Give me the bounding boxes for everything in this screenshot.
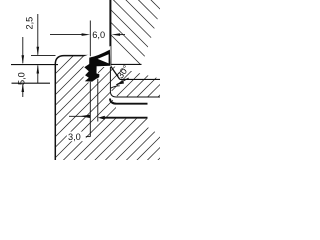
hatching upper block (backslash direction): [0, 0, 230, 154]
svg-text:6,0: 6,0: [92, 30, 105, 40]
white underlay below seal: [84, 46, 111, 83]
lower-right block top edge (thick, rounded corner): [110, 99, 148, 104]
extension line L1 (left of block, for 2.5 dim): [31, 55, 56, 57]
upper block bottom edge: [110, 63, 142, 65]
step top edge right of chamfer: [120, 78, 160, 80]
extension line L2: [11, 64, 58, 66]
wall face (upper block left edge, thick): [109, 0, 111, 66]
svg-text:3,0: 3,0: [68, 132, 81, 142]
wall face extension + inner corner line (thin L): [110, 66, 160, 97]
3,0 dim right tail (thick): [105, 117, 148, 119]
lower-left block: left edge + rounded corner + top edge: [55, 56, 89, 160]
dim 6,0 : horizontal at y=34.6: [50, 21, 125, 57]
block top edge right of seal groove: [98, 65, 110, 67]
svg-text:2,5: 2,5: [25, 17, 35, 30]
hatching lower block (slash direction): [0, 0, 320, 170]
dim 5,0 : vertical line at x=22.8: [22, 37, 24, 97]
30deg chamfer edge: [111, 66, 120, 79]
dim 3,0 : horizontal at y=116.3: [69, 79, 98, 137]
svg-text:5,0: 5,0: [16, 72, 26, 85]
extension line L3: [12, 82, 51, 84]
dim 2,5 : vertical line at x=37.8: [37, 14, 39, 83]
seal profile (black): [84, 50, 110, 82]
